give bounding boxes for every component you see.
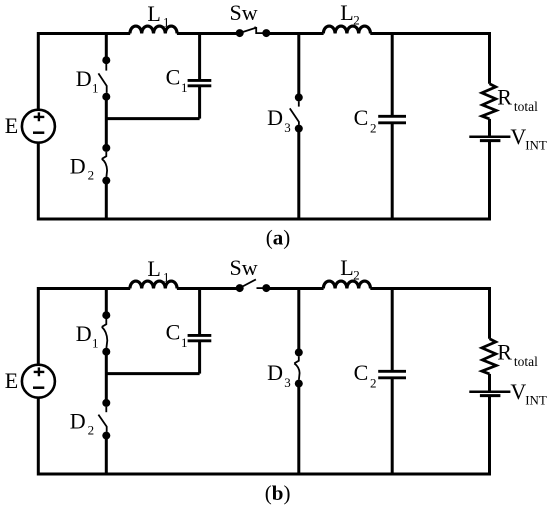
svg-text:INT: INT: [525, 137, 547, 152]
svg-text:D: D: [267, 360, 283, 385]
wire branch D3 top b: [297, 289, 300, 353]
capacitor C1: [188, 80, 212, 85]
svg-text:3: 3: [284, 120, 291, 135]
node D3 bottom b: [295, 380, 303, 388]
resistor Rtotal: [482, 84, 496, 119]
wire top-left + left upper: [38, 34, 130, 110]
svg-text:2: 2: [370, 121, 377, 136]
node D2 top: [102, 144, 110, 152]
wire D1 to D2: [105, 97, 108, 145]
wire C1 bottom b: [198, 341, 201, 374]
svg-text:3: 3: [284, 375, 291, 390]
svg-text:C: C: [354, 360, 369, 385]
battery VINT plate long: [469, 135, 510, 138]
svg-text:V: V: [510, 124, 526, 149]
node D2 bottom: [102, 177, 110, 185]
capacitor C2: [378, 116, 406, 123]
svg-text:D: D: [76, 66, 92, 91]
wire top-right corner: [370, 34, 489, 84]
svg-text:Sw: Sw: [230, 255, 258, 280]
node D1 top b: [102, 311, 110, 319]
wire bottom loop: [38, 141, 489, 219]
node Sw left: [236, 29, 244, 37]
svg-text:C: C: [166, 320, 181, 345]
svg-text:2: 2: [353, 267, 360, 282]
svg-text:D: D: [267, 105, 283, 130]
wire bottom loop b: [38, 396, 489, 474]
svg-text:L: L: [340, 0, 353, 25]
wire D2 to bottom b: [105, 436, 108, 474]
node Sw left b: [236, 284, 244, 292]
switch D3 (open): [290, 101, 299, 125]
wire branch D3 top: [297, 34, 300, 98]
capacitor C1 b: [188, 335, 212, 340]
svg-text:INT: INT: [525, 392, 547, 407]
svg-text:2: 2: [370, 376, 377, 391]
wire C2 bottom: [391, 123, 394, 219]
node D1 bottom: [102, 93, 110, 101]
svg-text:2: 2: [88, 168, 95, 183]
svg-text:total: total: [514, 99, 538, 114]
svg-text:2: 2: [88, 423, 95, 438]
svg-text:D: D: [70, 153, 86, 178]
node D3 top: [295, 93, 303, 101]
switch D1 b (closed): [102, 319, 108, 348]
inductor L1 b: [130, 281, 177, 288]
svg-text:1: 1: [181, 335, 188, 350]
svg-text:Sw: Sw: [230, 0, 258, 25]
inductor L1: [130, 26, 177, 33]
battery VINT plate short b: [480, 394, 501, 397]
node D2 top b: [102, 399, 110, 407]
svg-text:(b): (b): [265, 481, 291, 505]
wire resistor to battery b: [488, 374, 491, 391]
svg-text:R: R: [497, 340, 512, 365]
svg-text:E: E: [5, 113, 18, 138]
source E plus: [34, 112, 45, 121]
wire D3 to bottom b: [297, 384, 300, 474]
node D3 top b: [295, 348, 303, 356]
wire resistor to battery: [488, 119, 491, 136]
svg-text:C: C: [354, 105, 369, 130]
svg-text:1: 1: [92, 335, 99, 350]
svg-text:L: L: [147, 256, 160, 281]
source E minus: [33, 131, 44, 134]
svg-text:1: 1: [163, 270, 170, 285]
source E circle b: [22, 365, 55, 398]
node D1 bottom b: [102, 348, 110, 356]
wire middle node: [106, 117, 199, 120]
svg-text:(a): (a): [266, 226, 291, 250]
svg-text:L: L: [147, 1, 160, 26]
switch D3 b (closed): [294, 356, 299, 380]
resistor Rtotal b: [482, 339, 496, 374]
inductor L2: [323, 26, 370, 33]
switch D2 b (open): [98, 407, 106, 432]
svg-text:V: V: [510, 379, 526, 404]
wire middle node b: [106, 372, 199, 375]
switch Sw (closed): [240, 27, 267, 33]
wire D1 to D2 b: [105, 352, 108, 400]
wire D3 to bottom: [297, 129, 300, 219]
switch D1 (open): [98, 64, 106, 93]
switch Sw b (open): [240, 279, 267, 288]
battery VINT plate long b: [469, 390, 510, 393]
wire C2 top: [391, 34, 394, 117]
svg-text:E: E: [5, 368, 18, 393]
wire branch D1 top b: [105, 289, 108, 316]
wire branch D1 top: [105, 34, 108, 61]
wire D2 to bottom: [105, 181, 108, 219]
switch D2 (closed): [102, 152, 107, 177]
node D3 bottom: [295, 125, 303, 133]
wire Sw to L2 b: [266, 287, 323, 290]
svg-text:1: 1: [181, 80, 188, 95]
source E circle: [22, 110, 55, 143]
svg-text:D: D: [70, 408, 86, 433]
source E minus b: [33, 386, 44, 389]
wire L1 to Sw b: [177, 287, 240, 290]
svg-text:2: 2: [353, 12, 360, 27]
node D1 top: [102, 56, 110, 64]
wire C1 bottom: [198, 86, 201, 119]
svg-text:D: D: [76, 321, 92, 346]
node Sw right b: [262, 284, 270, 292]
node D2 bottom b: [102, 432, 110, 440]
wire Sw to L2: [266, 32, 323, 35]
svg-text:R: R: [497, 85, 512, 110]
wire top-left + left upper b: [38, 289, 130, 365]
svg-text:1: 1: [163, 15, 170, 30]
source E plus b: [34, 367, 45, 376]
wire C2 top b: [391, 289, 394, 372]
svg-text:1: 1: [92, 80, 99, 95]
svg-text:L: L: [340, 255, 353, 280]
svg-text:C: C: [166, 65, 181, 90]
svg-text:total: total: [514, 354, 538, 369]
wire L1 to Sw: [177, 32, 240, 35]
inductor L2 b: [323, 281, 370, 288]
wire top-right corner b: [370, 289, 489, 339]
wire C1 top: [198, 34, 201, 81]
capacitor C2 b: [378, 371, 406, 378]
battery VINT plate short: [480, 139, 501, 142]
wire C1 top b: [198, 289, 201, 336]
node Sw right: [262, 29, 270, 37]
wire C2 bottom b: [391, 378, 394, 474]
